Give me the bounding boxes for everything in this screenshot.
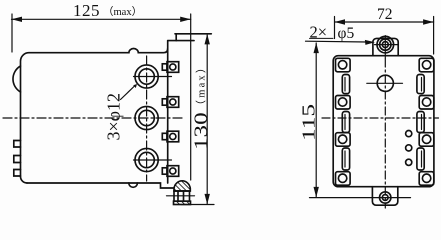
- bottom ear screw outer: [380, 192, 391, 203]
- foot body: [174, 191, 190, 201]
- bottom ear screw inner: [382, 195, 388, 201]
- pad left 1: [336, 58, 351, 72]
- top ear screw vertical axis: [384, 36, 386, 59]
- svg-text:125: 125: [73, 1, 100, 20]
- svg-text:130: 130: [190, 112, 211, 150]
- small circle 3: [406, 159, 412, 165]
- dimension 72 left arrow: [335, 19, 346, 24]
- slot right 1: [417, 75, 424, 94]
- leader 3xphi12: [121, 87, 135, 100]
- right view vertical center line: [384, 59, 386, 208]
- left clip 3: [14, 170, 21, 177]
- right view horizontal center line: [322, 117, 439, 119]
- hole circle 2 outer: [135, 106, 158, 129]
- right rail line: [167, 41, 169, 183]
- pad left 3: [336, 133, 351, 147]
- dimension 115 top arrow: [314, 43, 319, 54]
- dimension 130 bottom extension: [181, 204, 214, 206]
- dimension 72 line: [335, 21, 434, 23]
- top ear screw horizontal axis: [375, 44, 399, 46]
- svg-text:72: 72: [377, 6, 393, 23]
- dimension 130 line: [206, 35, 208, 204]
- bottom edge: [27, 183, 174, 188]
- svg-text:φ5: φ5: [338, 25, 355, 42]
- hole circle 2 inner: [139, 110, 154, 125]
- slot right 3: [417, 148, 424, 170]
- vertical center line left view: [146, 56, 148, 181]
- dimension 125 right arrow: [180, 17, 191, 22]
- pad left 2: [336, 96, 351, 110]
- svg-text:115: 115: [299, 104, 318, 141]
- foot inner line 2: [183, 191, 185, 201]
- top ear screw outer: [377, 36, 394, 53]
- foot inner line 1: [177, 191, 179, 201]
- hole circle 1 inner: [139, 69, 154, 84]
- slot left 3: [342, 148, 349, 170]
- pad right 2: [419, 96, 434, 110]
- terminal block 3: [162, 131, 178, 142]
- pad right 1: [419, 58, 434, 72]
- top mounting ear: [373, 38, 398, 55]
- terminal block 4: [162, 166, 178, 177]
- terminal block 1: [162, 62, 178, 73]
- bottom bump foot: [129, 183, 138, 187]
- small circle 2: [406, 145, 412, 151]
- hole circle 1 outer: [135, 65, 158, 88]
- right view body: [333, 56, 434, 187]
- top bracket riser: [175, 34, 177, 41]
- small circle 1: [406, 131, 412, 137]
- bottom mounting ear: [372, 187, 397, 206]
- pad right 4: [419, 172, 434, 186]
- dimension 130 bottom arrow: [205, 194, 210, 205]
- center circle: [377, 75, 393, 91]
- foot screw line: [167, 195, 195, 197]
- pad left 4: [336, 172, 351, 186]
- left edge bump: [13, 66, 21, 92]
- short underline below 2x: [310, 37, 334, 39]
- slot right 2: [417, 112, 424, 133]
- dimension 125 extension line left: [11, 14, 13, 52]
- dimension 125 left arrow: [12, 17, 23, 22]
- leader phi5 arrow: [365, 40, 375, 45]
- top ear screw inner: [382, 42, 388, 48]
- hole circle 3 outer: [135, 148, 158, 171]
- slot left 2: [342, 112, 349, 133]
- pad right 3: [419, 133, 434, 147]
- svg-text:（max）: （max）: [196, 60, 208, 110]
- dimension 72 extension right: [433, 17, 435, 55]
- hole circle 3 horizontal crosshair: [134, 159, 172, 161]
- left clip 1: [14, 141, 21, 148]
- left clip 2: [14, 156, 21, 163]
- foot dome hatched: [174, 181, 190, 191]
- dimension 130 top arrow: [205, 34, 210, 45]
- body outline left view: [29, 48, 168, 52]
- leader arrow: [133, 84, 137, 88]
- leader phi5: [306, 40, 368, 43]
- foot base hatched: [174, 201, 191, 204]
- svg-text:（max）: （max）: [103, 6, 142, 18]
- dimension 115 bottom arrow: [314, 187, 319, 198]
- top bracket step horizontal: [168, 40, 194, 42]
- slot left 1: [342, 75, 349, 94]
- dimension 125 line: [12, 18, 191, 20]
- top ear screw mid: [380, 39, 391, 50]
- horizontal center line left view: [3, 117, 184, 119]
- dimension 125 extension line right: [190, 14, 192, 180]
- top bracket top line (130 extension): [175, 33, 211, 35]
- body left edge: [21, 53, 30, 183]
- dimension 72 right arrow: [423, 19, 434, 24]
- hole circle 1 horizontal crosshair: [134, 76, 172, 78]
- dimension 115 line: [315, 43, 317, 197]
- dimension 72 extension left: [334, 17, 336, 39]
- terminal block 2: [162, 97, 178, 108]
- dimension 115 bottom extension / bottom screw axis: [310, 197, 411, 199]
- center circle horizontal axis: [367, 82, 403, 84]
- hole circle 3 inner: [139, 152, 154, 167]
